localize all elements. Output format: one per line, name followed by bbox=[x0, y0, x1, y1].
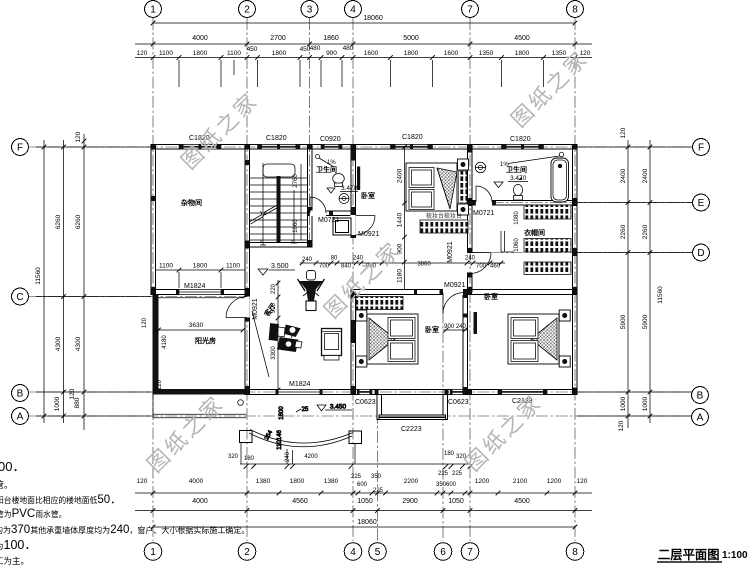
svg-text:C0623: C0623 bbox=[448, 399, 469, 406]
svg-text:1000: 1000 bbox=[620, 396, 627, 411]
svg-text:A: A bbox=[17, 412, 24, 423]
svg-text:管。: 管。 bbox=[0, 479, 13, 490]
svg-text:8: 8 bbox=[572, 547, 578, 558]
svg-text:1800: 1800 bbox=[290, 478, 305, 485]
axis line 6 bbox=[442, 292, 444, 541]
bath2 sink bbox=[475, 162, 485, 172]
svg-text:1600: 1600 bbox=[279, 406, 285, 420]
svg-text:1800: 1800 bbox=[193, 50, 208, 57]
svg-text:220: 220 bbox=[271, 283, 277, 294]
svg-text:6260: 6260 bbox=[75, 214, 82, 229]
svg-text:120: 120 bbox=[157, 379, 163, 390]
left dimension chains bbox=[35, 131, 151, 430]
axis line F bbox=[29, 146, 692, 148]
svg-text:5900: 5900 bbox=[642, 314, 649, 329]
balcony railing A left bbox=[153, 394, 246, 418]
bath2 corner mark bbox=[518, 177, 522, 180]
svg-text:管为PVC雨水管。: 管为PVC雨水管。 bbox=[0, 508, 66, 520]
svg-text:1: 1 bbox=[150, 5, 156, 16]
axis line B bbox=[29, 391, 692, 393]
closet shower box bath1 bbox=[333, 218, 351, 235]
svg-text:1200: 1200 bbox=[547, 478, 562, 485]
svg-text:120: 120 bbox=[137, 478, 148, 485]
svg-text:3.500: 3.500 bbox=[271, 263, 289, 270]
wall axis3 vertical stair east bbox=[307, 145, 312, 248]
wall E bath2 south bbox=[468, 201, 578, 206]
svg-text:240: 240 bbox=[465, 256, 476, 262]
svg-text:杂物间: 杂物间 bbox=[181, 198, 202, 207]
svg-text:卧室: 卧室 bbox=[484, 292, 498, 301]
window C1820 bedroom1 bbox=[391, 145, 433, 150]
svg-text:卫生间: 卫生间 bbox=[316, 165, 337, 174]
svg-text:120: 120 bbox=[137, 50, 148, 57]
top extension lines bbox=[179, 60, 544, 87]
svg-text:4000: 4000 bbox=[192, 498, 208, 505]
bath2 toilet bbox=[513, 184, 522, 200]
svg-text:120: 120 bbox=[142, 317, 148, 328]
bedroom1 wall bar bbox=[357, 167, 360, 191]
porch arc balcony bbox=[241, 430, 355, 465]
svg-text:4500: 4500 bbox=[514, 35, 530, 42]
window C2123 bbox=[498, 390, 547, 395]
svg-text:80: 80 bbox=[331, 256, 338, 262]
bedroom1 bed bbox=[406, 163, 457, 211]
svg-text:240: 240 bbox=[302, 257, 313, 263]
svg-text:480: 480 bbox=[343, 45, 354, 52]
svg-text:1600: 1600 bbox=[364, 50, 379, 57]
svg-text:7: 7 bbox=[467, 5, 473, 16]
wall west sunroom thick bbox=[153, 294, 159, 394]
window C1820 storage bbox=[179, 145, 221, 150]
living chair a bbox=[269, 324, 289, 341]
bedroom4 wall bar bbox=[474, 312, 478, 334]
svg-text:C: C bbox=[16, 292, 23, 303]
sunroom top line bbox=[159, 297, 245, 299]
top dimension row openings bbox=[135, 45, 592, 60]
svg-text:工为主。: 工为主。 bbox=[0, 556, 29, 566]
wall axis4 bedroom3 west bbox=[351, 292, 356, 394]
svg-text:5000: 5000 bbox=[403, 35, 419, 42]
living diagonal mark bbox=[252, 311, 269, 377]
svg-text:B: B bbox=[17, 389, 24, 400]
svg-text:4: 4 bbox=[350, 547, 356, 558]
svg-text:240: 240 bbox=[353, 256, 364, 262]
bedroom3 nightstand south bbox=[356, 356, 367, 367]
svg-text:8: 8 bbox=[572, 5, 578, 16]
bedroom1 nightstand south bbox=[458, 204, 469, 215]
svg-text:1350: 1350 bbox=[552, 50, 567, 57]
axis line 3 bbox=[309, 18, 311, 247]
axis line 1 bbox=[152, 18, 154, 541]
svg-text:1000: 1000 bbox=[54, 396, 61, 411]
level 3.500 living bbox=[258, 263, 295, 275]
stair stringer bbox=[277, 176, 281, 242]
svg-text:2: 2 bbox=[244, 547, 250, 558]
svg-text:M0921: M0921 bbox=[444, 282, 466, 289]
storage dim row bbox=[155, 263, 245, 289]
svg-text:衣帽间: 衣帽间 bbox=[524, 228, 545, 237]
svg-text:2100: 2100 bbox=[513, 478, 528, 485]
cloak wardrobe row2 bbox=[524, 239, 571, 253]
living chair b bbox=[278, 338, 303, 352]
svg-text:1800: 1800 bbox=[515, 50, 530, 57]
svg-text:5: 5 bbox=[375, 547, 381, 558]
svg-text:3.470: 3.470 bbox=[341, 185, 358, 192]
svg-text:M0721: M0721 bbox=[473, 210, 495, 217]
door M0721 bath2 opening bbox=[476, 200, 492, 206]
svg-text:卧室: 卧室 bbox=[425, 325, 439, 334]
door M0721 bath2 leaf bbox=[476, 186, 492, 202]
bath1 toilet bbox=[333, 174, 345, 187]
svg-text:6260: 6260 bbox=[55, 214, 62, 229]
svg-text:M0921: M0921 bbox=[358, 231, 380, 238]
svg-text:2700: 2700 bbox=[270, 35, 286, 42]
top dimension row total 18060 bbox=[151, 15, 578, 25]
svg-text:4300: 4300 bbox=[55, 336, 62, 351]
svg-text:320: 320 bbox=[228, 454, 239, 460]
bedroom4 nightstand north bbox=[559, 310, 570, 321]
svg-text:1060: 1060 bbox=[293, 219, 299, 233]
wall axis2 vertical bbox=[245, 145, 250, 395]
living pendant symbol bbox=[298, 271, 325, 311]
living floor lamp bbox=[285, 325, 301, 338]
svg-text:4000: 4000 bbox=[189, 478, 204, 485]
notes bottom left bbox=[0, 459, 249, 566]
bedroom1 nightstand north bbox=[458, 159, 469, 170]
bedroom3 wardrobe bbox=[356, 297, 403, 310]
svg-text:225: 225 bbox=[452, 471, 463, 477]
sunroom dims bbox=[142, 317, 245, 390]
svg-text:1180: 1180 bbox=[397, 269, 404, 283]
svg-text:1860: 1860 bbox=[323, 35, 339, 42]
svg-text:C2223: C2223 bbox=[401, 426, 422, 433]
door M0921 bedroom1 opening bbox=[350, 215, 356, 235]
svg-text:1: 1 bbox=[150, 547, 156, 558]
window C0623 b bbox=[450, 390, 465, 395]
svg-text:E: E bbox=[698, 198, 705, 209]
door M1824 storage opening bbox=[179, 290, 221, 295]
svg-text:卧室: 卧室 bbox=[361, 191, 375, 200]
svg-text:25: 25 bbox=[302, 407, 309, 413]
axis bubbles top bbox=[145, 1, 584, 18]
svg-text:2400: 2400 bbox=[397, 168, 404, 183]
axis line C bbox=[29, 296, 249, 298]
svg-text:350: 350 bbox=[371, 474, 382, 480]
svg-text:700: 700 bbox=[319, 264, 330, 270]
bedroom3 bed bbox=[367, 314, 418, 364]
svg-text:1050: 1050 bbox=[357, 498, 373, 505]
bottom porch small dims bbox=[228, 451, 472, 469]
svg-text:240: 240 bbox=[285, 451, 291, 462]
svg-text:1%: 1% bbox=[500, 162, 509, 168]
svg-text:1060: 1060 bbox=[514, 238, 520, 252]
svg-text:二层平面图: 二层平面图 bbox=[658, 548, 720, 562]
svg-text:1050: 1050 bbox=[448, 498, 464, 505]
svg-text:180: 180 bbox=[444, 451, 455, 457]
svg-text:2: 2 bbox=[244, 5, 250, 16]
svg-text:1350: 1350 bbox=[479, 50, 494, 57]
wall bedroom3-4 divider bbox=[463, 292, 468, 394]
svg-text:1380: 1380 bbox=[324, 478, 339, 485]
svg-text:3300: 3300 bbox=[271, 346, 277, 360]
bottom dimension row openings bbox=[135, 471, 592, 495]
svg-text:4180: 4180 bbox=[162, 335, 168, 349]
porch level dims bbox=[264, 404, 352, 450]
door M0721 bath1 opening bbox=[310, 211, 326, 217]
wall west exterior storage bbox=[151, 145, 156, 295]
wall circle mark bbox=[238, 400, 244, 406]
door M0921 cloak opening leaf bbox=[470, 253, 491, 274]
staircase bbox=[250, 163, 308, 245]
bedroom3 wall bar bbox=[352, 320, 356, 343]
svg-text:180: 180 bbox=[244, 456, 255, 462]
svg-text:B: B bbox=[697, 391, 704, 402]
svg-text:840: 840 bbox=[341, 264, 352, 270]
axis bubbles left bbox=[12, 139, 29, 425]
svg-text:梳妆台梳妆台: 梳妆台梳妆台 bbox=[426, 212, 462, 220]
svg-text:1100: 1100 bbox=[159, 50, 173, 57]
cloak wardrobe row3 bbox=[524, 262, 571, 275]
svg-text:1%: 1% bbox=[327, 160, 336, 166]
bay window C2223 bbox=[377, 395, 448, 420]
wall sunroom south thick bbox=[153, 389, 246, 395]
svg-text:1100: 1100 bbox=[159, 263, 173, 270]
svg-text:1200: 1200 bbox=[475, 478, 490, 485]
svg-text:阳光房: 阳光房 bbox=[195, 336, 216, 345]
wall storage south M1824 bbox=[151, 290, 250, 295]
svg-text:11560: 11560 bbox=[35, 267, 42, 285]
wall east exterior bbox=[573, 145, 578, 395]
svg-text:F: F bbox=[698, 143, 704, 154]
svg-text:1100: 1100 bbox=[227, 50, 241, 57]
bottom dimension row groups bbox=[135, 498, 592, 513]
bath2 drain slope bbox=[508, 152, 564, 163]
window C1820 bath2 bbox=[502, 145, 544, 150]
window C0623 a bbox=[357, 390, 372, 395]
bedroom4 bed bbox=[508, 314, 559, 364]
cloak entry partition bbox=[501, 231, 514, 252]
right dimension chains bbox=[577, 127, 692, 431]
svg-text:3.450: 3.450 bbox=[330, 404, 347, 411]
top dimension row axis spans bbox=[135, 35, 592, 46]
svg-text:225: 225 bbox=[351, 474, 362, 480]
axis line D bbox=[472, 252, 692, 254]
axis line 7 bbox=[469, 18, 471, 541]
svg-text:2200: 2200 bbox=[404, 478, 419, 485]
svg-text:11560: 11560 bbox=[657, 286, 664, 304]
wall bath1 south bbox=[307, 211, 355, 216]
svg-text:C0623: C0623 bbox=[355, 399, 376, 406]
living vertical dim bbox=[271, 280, 280, 392]
svg-text:2900: 2900 bbox=[402, 498, 418, 505]
svg-text:7: 7 bbox=[467, 547, 473, 558]
svg-text:450: 450 bbox=[247, 46, 258, 53]
svg-text:460: 460 bbox=[490, 264, 501, 270]
svg-text:均为370其他承重墙体厚度均为240，窗户、大小根据实际施工: 均为370其他承重墙体厚度均为240，窗户、大小根据实际施工确定。 bbox=[0, 524, 249, 536]
svg-text:A: A bbox=[697, 413, 704, 424]
wall B south exterior bbox=[245, 390, 577, 395]
window C1820 stair bbox=[258, 145, 301, 150]
svg-text:700: 700 bbox=[476, 264, 487, 270]
door M0921 bedroom1 leaf bbox=[356, 216, 376, 236]
svg-text:120: 120 bbox=[577, 478, 588, 485]
level 3.470 bath2 bbox=[494, 162, 528, 188]
svg-text:1440: 1440 bbox=[397, 212, 404, 227]
svg-text:M0721: M0721 bbox=[318, 217, 340, 224]
axis line 4 bbox=[352, 18, 354, 541]
bedroom1 dresser bbox=[420, 212, 468, 233]
living sofa bbox=[322, 329, 342, 361]
svg-text:2260: 2260 bbox=[642, 224, 649, 239]
svg-text:1800: 1800 bbox=[404, 50, 419, 57]
svg-text:900: 900 bbox=[326, 50, 337, 57]
svg-text:1100: 1100 bbox=[226, 263, 240, 270]
svg-text:350600: 350600 bbox=[436, 482, 457, 488]
porch column a bbox=[240, 431, 253, 443]
wall axis7 vertical bbox=[468, 145, 473, 253]
svg-text:6: 6 bbox=[440, 547, 446, 558]
svg-text:225: 225 bbox=[438, 471, 449, 477]
bedroom4 nightstand south bbox=[559, 356, 570, 367]
door M0921 sunroom leaf bbox=[226, 297, 247, 318]
axis bubbles right bbox=[692, 139, 710, 426]
svg-text:900 240: 900 240 bbox=[444, 324, 466, 330]
svg-text:1380: 1380 bbox=[256, 478, 271, 485]
bath1 sink bbox=[339, 194, 349, 204]
door M0921 sunroom opening bbox=[244, 297, 250, 318]
porch column b bbox=[349, 431, 362, 444]
svg-text:3860: 3860 bbox=[417, 262, 431, 268]
level 3.470 bath1 bbox=[327, 160, 358, 193]
svg-text:4300: 4300 bbox=[75, 336, 82, 351]
svg-text:M1824: M1824 bbox=[184, 283, 206, 290]
svg-text:F: F bbox=[17, 143, 23, 154]
axis bubbles bottom bbox=[144, 543, 584, 561]
corridor dim row bbox=[300, 256, 505, 270]
svg-text:120: 120 bbox=[618, 420, 625, 431]
svg-text:为100．: 为100． bbox=[0, 538, 37, 552]
svg-text:M1824: M1824 bbox=[289, 381, 311, 388]
svg-text:00．: 00． bbox=[0, 459, 25, 474]
svg-text:4: 4 bbox=[350, 5, 356, 16]
axis line 5 bbox=[377, 392, 379, 541]
door M0921 bedroom3 leaf bbox=[443, 293, 464, 314]
svg-text:3630: 3630 bbox=[189, 322, 204, 329]
bath2 bathtub bbox=[551, 158, 569, 202]
svg-text:3.470: 3.470 bbox=[510, 175, 527, 182]
svg-text:1000: 1000 bbox=[642, 396, 649, 411]
svg-text:225: 225 bbox=[373, 488, 384, 494]
svg-text:C1820: C1820 bbox=[402, 134, 423, 141]
door M0921 bedroom3 opening bbox=[443, 289, 463, 295]
svg-text:1800: 1800 bbox=[193, 263, 208, 270]
svg-text:1080: 1080 bbox=[514, 211, 520, 225]
svg-text:4560: 4560 bbox=[292, 498, 308, 505]
window C0920 bath1 bbox=[321, 145, 342, 150]
svg-text:4500: 4500 bbox=[514, 498, 530, 505]
axis line A bbox=[29, 415, 692, 417]
svg-text:120: 120 bbox=[75, 131, 82, 142]
axis line 8 bbox=[574, 18, 576, 541]
svg-text:110146: 110146 bbox=[277, 430, 283, 450]
svg-text:C1820: C1820 bbox=[510, 136, 531, 143]
title block bbox=[657, 548, 748, 562]
svg-text:卫生间: 卫生间 bbox=[506, 165, 527, 174]
svg-text:2400: 2400 bbox=[620, 168, 627, 183]
svg-text:480: 480 bbox=[310, 45, 321, 52]
wall F north exterior bbox=[151, 145, 577, 150]
svg-text:C0920: C0920 bbox=[320, 136, 341, 143]
bedroom1 internal dims bbox=[397, 145, 407, 290]
wall mid horizontal y292 bbox=[351, 290, 577, 295]
svg-text:2400: 2400 bbox=[642, 168, 649, 183]
bedroom1 headboard strip bbox=[459, 171, 468, 203]
svg-text:阳台楼地面比相应的楼地面低50．: 阳台楼地面比相应的楼地面低50． bbox=[0, 494, 122, 506]
bottom total 18060 bbox=[151, 519, 578, 529]
svg-text:120: 120 bbox=[620, 127, 627, 138]
wall axis4 vertical bbox=[351, 145, 356, 238]
svg-text:600: 600 bbox=[357, 482, 368, 488]
cloak wardrobe row1 bbox=[524, 205, 571, 219]
axis line E bbox=[472, 202, 692, 204]
svg-text:5900: 5900 bbox=[620, 314, 627, 329]
bedroom3 dim 900 bbox=[443, 324, 467, 332]
svg-text:4200: 4200 bbox=[304, 454, 318, 460]
svg-text:1:100: 1:100 bbox=[722, 550, 748, 561]
svg-text:1600: 1600 bbox=[444, 50, 459, 57]
svg-text:1800: 1800 bbox=[272, 50, 287, 57]
svg-text:D: D bbox=[697, 248, 704, 259]
svg-text:4000: 4000 bbox=[192, 35, 208, 42]
svg-text:3: 3 bbox=[307, 5, 313, 16]
svg-text:2260: 2260 bbox=[620, 224, 627, 239]
svg-text:M0921: M0921 bbox=[252, 298, 259, 320]
door M0721 bath1 leaf bbox=[310, 197, 326, 213]
svg-text:18060: 18060 bbox=[363, 15, 383, 22]
svg-text:18060: 18060 bbox=[357, 519, 377, 526]
door M1824 south entrance bbox=[276, 390, 323, 395]
svg-text:C1820: C1820 bbox=[266, 135, 287, 142]
bath1 drain slope bbox=[316, 155, 335, 168]
axis line 2 bbox=[246, 18, 248, 541]
svg-text:2760: 2760 bbox=[293, 174, 299, 188]
wall axis7 pier below door bbox=[468, 273, 473, 292]
window mullions bbox=[199, 145, 525, 395]
svg-text:M0921: M0921 bbox=[447, 241, 454, 263]
wall stair south bbox=[245, 243, 312, 248]
bedroom3 nightstand north bbox=[356, 310, 367, 321]
svg-text:120: 120 bbox=[69, 388, 76, 399]
